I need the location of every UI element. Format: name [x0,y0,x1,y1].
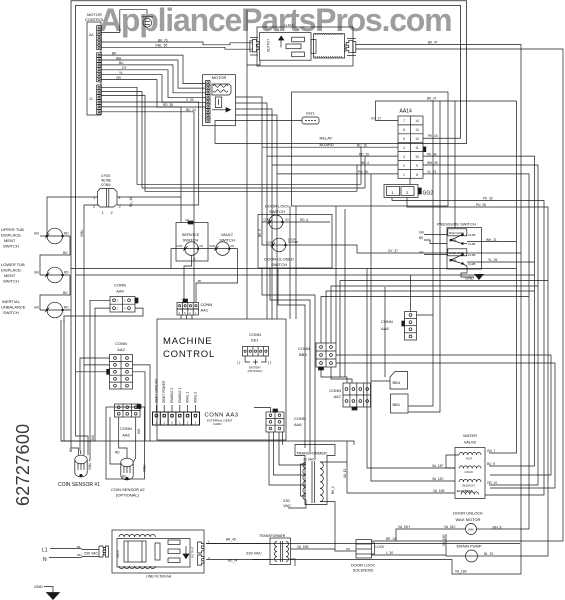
svg-text:BK: BK [198,280,202,283]
svg-text:BOARD: BOARD [320,142,334,147]
filter output plug [198,542,204,553]
svg-text:AA5: AA5 [122,433,130,438]
svg-text:GND: GND [465,276,474,281]
water valve box [455,448,485,499]
svg-text:ENABLE 2: ENABLE 2 [170,388,174,403]
output board inner module [260,33,312,61]
motor output wires down to machine control [236,97,263,222]
hatched relay block [314,34,345,58]
door bundle corner w3 [278,268,305,448]
svg-text:WH: WH [116,56,122,60]
contact base [451,255,463,261]
verticals below relay board [289,206,291,319]
svg-text:BK_1: BK_1 [331,486,335,494]
door tiny labels [264,219,299,245]
svg-text:INERTIAL: INERTIAL [2,299,21,304]
svg-text:WH: WH [91,434,95,440]
door switches enclosure [258,215,332,269]
wire GG1 to left [215,121,302,144]
frame outer [71,1,467,268]
wire inertial to coin sensor 1 [71,269,79,456]
svg-text:230 VAC: 230 VAC [246,551,262,556]
line filter box [112,530,204,573]
svg-text:5: 5 [403,137,405,141]
svg-text:19-M8: 19-M8 [468,242,476,246]
svg-text:INPUT: INPUT [116,549,120,558]
GG2 top stub [409,178,411,184]
svg-text:DISPLACE-: DISPLACE- [1,233,23,238]
svg-text:BB1: BB1 [393,402,401,407]
door lock solenoid [350,540,446,559]
T2 leads [206,543,270,545]
door bundle corner w2 [270,268,310,452]
svg-text:SWITCH: SWITCH [3,310,19,315]
svg-text:RD_6: RD_6 [300,218,308,222]
svg-text:ENABLE 1: ENABLE 1 [178,388,182,403]
svg-text:BB4: BB4 [393,380,401,385]
svg-text:LOWER TUB: LOWER TUB [1,262,25,267]
conn AA6 [266,412,284,432]
svg-text:BK_47: BK_47 [428,41,438,45]
wire main plug right to bundle [356,45,521,575]
svg-text:( ): ( ) [237,361,240,365]
filter top coil [119,534,155,537]
svg-text:TRANSFORMER: TRANSFORMER [296,451,327,456]
svg-text:CONN: CONN [120,426,132,431]
svg-text:AA4: AA4 [116,289,124,294]
svg-text:4 POS: 4 POS [101,174,110,178]
filter bottom coil [119,566,155,569]
wire staircase 3 [101,65,205,93]
svg-text:BR_14: BR_14 [386,537,396,541]
svg-text:DEBIT GROUND: DEBIT GROUND [154,378,158,403]
svg-text:DRAIN PUMP: DRAIN PUMP [456,544,481,549]
filter core block [124,541,146,562]
svg-text:CONN: CONN [115,341,127,346]
output board U2 [257,27,353,66]
svg-text:19-M8: 19-M8 [468,262,476,266]
svg-text:GN: GN [419,231,424,235]
svg-text:24-M8: 24-M8 [468,233,476,237]
4 pos inline connector J1 [98,189,118,208]
spur to output board [247,60,260,65]
svg-text:VAULT: VAULT [221,232,234,237]
svg-text:WATER: WATER [463,433,477,438]
svg-text:COIN SENSOR #2: COIN SENSOR #2 [111,487,145,492]
svg-text:RD: RD [64,232,69,236]
svg-text:9: 9 [416,164,418,168]
wire vault right down to AA1 [196,249,238,302]
vault switch S5 [216,242,230,256]
battery bracket [245,356,250,362]
base level box [448,249,467,256]
svg-text:CONN: CONN [294,416,306,421]
svg-text:DEBIT POWER: DEBIT POWER [162,380,166,403]
main level box [448,229,467,236]
svg-text:BB3: BB3 [299,352,307,357]
svg-text:UNBALANCE: UNBALANCE [1,305,26,310]
svg-text:COLD: COLD [465,470,474,474]
hot coil [459,452,481,455]
svg-text:CARD: CARD [213,422,222,426]
AA4 wires left [89,300,110,461]
motor M1 connector pins [206,81,210,123]
svg-text:CONTROL: CONTROL [85,17,105,22]
svg-text:NO: NO [231,245,235,248]
wire staircase 5 [101,75,205,103]
AA6 top wire [254,408,271,413]
svg-text:MACHINE: MACHINE [163,336,212,347]
svg-text:VAC: VAC [283,503,291,508]
wires right of 4pos [117,196,181,198]
svg-text:(OPTIONAL): (OPTIONAL) [116,493,140,498]
svg-text:CONTROL: CONTROL [163,349,215,360]
svg-text:RD_38: RD_38 [163,103,173,107]
svg-text:COM: COM [264,219,270,222]
svg-text:SWITCH: SWITCH [271,262,287,267]
wire RD_38 [101,107,181,222]
svg-text:13: 13 [415,128,419,132]
svg-text:VA_15C: VA_15C [444,525,456,529]
svg-text:DISPLACE-: DISPLACE- [1,268,23,273]
relay vertical continues [246,137,248,320]
conn AA3 strip [153,412,200,425]
svg-text:SERVICE: SERVICE [182,232,200,237]
upper tub switch S1 [47,228,63,244]
wire service com left [171,249,176,269]
wire BK_70 to output board [101,42,252,45]
svg-text:PK_33: PK_33 [483,197,493,201]
svg-text:BU_16: BU_16 [357,143,367,147]
filter caps [155,543,160,560]
svg-text:MAIN LEVEL: MAIN LEVEL [449,231,465,235]
filter inner box [117,539,190,568]
svg-text:RD: RD [64,306,69,310]
svg-text:V/BU: V/BU [88,462,92,470]
svg-text:( ): ( ) [268,361,271,365]
svg-text:GN: GN [34,232,39,236]
svg-text:YL: YL [119,71,123,75]
component rect 3 [292,52,305,57]
svg-text:YL_26: YL_26 [488,258,497,262]
service vault tiny labels [177,219,235,283]
thermal fuse F1 [142,16,154,18]
svg-text:OR: OR [116,76,121,80]
inertial unbalance switch S3 [47,302,63,318]
motor winding [212,84,231,95]
wax motor right lead [477,528,491,530]
svg-text:MOTOR: MOTOR [212,75,227,80]
svg-text:WH_21: WH_21 [486,238,497,242]
filter outputs [206,543,520,545]
svg-text:4a BYPASS: 4a BYPASS [457,489,473,493]
right wires [467,241,517,243]
svg-text:1: 1 [403,173,405,177]
service switch box [176,223,208,262]
valve left labels [432,464,444,493]
svg-text:CONN: CONN [249,332,261,337]
svg-text:(OPTIONAL): (OPTIONAL) [248,369,263,373]
CS2 wires [119,417,127,458]
wax motor left wire [396,529,466,541]
wire loop to thermal fuse [101,10,147,33]
svg-text:7: 7 [403,119,405,123]
AA4 wires right [64,308,143,322]
svg-text:AA1: AA1 [201,308,209,313]
svg-text:VA_13B: VA_13B [455,570,466,574]
svg-text:230 VAC: 230 VAC [84,552,99,556]
svg-text:MAIN: MAIN [343,43,347,52]
svg-text:BK_70: BK_70 [158,38,168,42]
AA14 left stubs [376,101,517,121]
svg-text:BLEACH: BLEACH [463,484,475,488]
wire to GND [461,264,474,278]
machine control box [157,319,286,440]
svg-text:VA_15B: VA_15B [297,545,308,549]
svg-text:VA_13F: VA_13F [432,464,443,468]
svg-text:BU: BU [63,291,68,295]
pin numbers AA1 [179,312,197,315]
svg-text:YL_23: YL_23 [427,170,436,174]
svg-text:N: N [43,557,47,563]
svg-text:PU_28: PU_28 [476,203,486,207]
AA8 stub [417,314,434,316]
svg-text:OR_10: OR_10 [487,481,497,485]
door bundle corner w1 [262,268,315,460]
motor thermal protector [215,97,221,108]
svg-text:L_30: L_30 [386,551,393,555]
svg-text:CONN: CONN [101,183,111,187]
svg-text:BR_45: BR_45 [226,538,236,542]
valve coil labels [457,457,475,494]
AA1 stubs into machine control [180,315,182,319]
svg-text:WH_25: WH_25 [427,161,438,165]
svg-text:4: 4 [403,146,405,150]
svg-text:BL_32: BL_32 [484,552,493,556]
BB4 [371,372,408,390]
pump left vertical [445,534,447,556]
input plug [99,546,105,557]
drain pump M3 [466,550,478,562]
svg-text:GY_37: GY_37 [388,249,398,253]
svg-text:L1 FA N: L1 FA N [284,23,294,27]
AA2 right wires [133,365,151,441]
valve right labels [487,449,497,485]
wire y107 to right bundle [489,101,517,453]
transformer enclosure [295,445,335,505]
svg-text:NO: NO [285,219,289,222]
svg-text:BU: BU [122,475,127,479]
transformer secondary bottom wire [320,502,350,551]
svg-text:GN: GN [185,219,189,222]
wire staircase 6 [101,80,205,107]
switch chain wires [47,197,98,236]
bus wire y275 [76,268,535,275]
wax motor M2 [466,524,477,535]
wire bb3 box edge vertical [335,206,337,343]
bus wire y268 [71,267,517,270]
wire vertical x345 [344,209,346,377]
svg-text:PRESSURE SWITCH: PRESSURE SWITCH [437,222,476,227]
AA3 wires up with labels [156,405,195,412]
relay board box [292,92,449,206]
wire bundle mc to water valve 2 [371,275,455,481]
svg-text:V_29: V_29 [186,98,194,102]
wire staircase 4 [101,70,205,98]
svg-text:8: 8 [416,173,418,177]
svg-text:WH_8: WH_8 [493,525,502,529]
svg-text:BU: BU [119,61,124,65]
svg-text:BU_9: BU_9 [487,462,495,466]
BB3 top wires [321,297,529,344]
arrow symbol [280,40,282,48]
wire bus C [101,96,357,192]
wire BU_24 [101,112,194,302]
svg-text:GG1: GG1 [306,111,315,116]
conn AA8 [405,312,417,341]
wire bus B [101,92,365,189]
door closed switch S7 [272,238,286,252]
svg-text:VA_13C: VA_13C [432,477,444,481]
conn EE1 [243,347,269,357]
AA14 pin mark [423,147,426,153]
svg-text:V/BL_56: V/BL_56 [155,44,167,48]
svg-text:GN_7: GN_7 [487,449,496,453]
wire 4pos pin2 down [84,205,98,455]
svg-text:BATTERY: BATTERY [249,366,261,370]
svg-text:CONN: CONN [329,388,341,393]
svg-text:WAX MOTOR: WAX MOTOR [456,517,481,522]
svg-text:OUTPUT: OUTPUT [191,546,195,558]
svg-text:NO: NO [200,245,204,248]
AA14 right wires to far bundle [423,156,535,466]
AA2 left wires to coin bundle [80,358,110,454]
svg-text:24-M8: 24-M8 [468,253,476,257]
svg-text:CONN: CONN [201,302,213,307]
svg-text:VA_15H: VA_15H [398,525,410,529]
svg-text:WH: WH [137,428,141,434]
service switch S4 [185,242,199,256]
vertical wire from frame to lower left [246,10,248,137]
svg-text:CONN: CONN [114,283,126,288]
svg-text:RD_35: RD_35 [359,152,369,156]
svg-text:SWITCH: SWITCH [3,279,19,284]
wire bundle mc to water valve 1 [367,269,455,469]
svg-text:TRANSFORMER: TRANSFORMER [259,534,286,538]
motor control pin group 3 [97,85,102,114]
filter internal ground [185,546,187,554]
svg-text:BK_5: BK_5 [258,229,262,237]
svg-text:VALVE: VALVE [464,440,477,445]
svg-text:PU_26: PU_26 [358,170,368,174]
svg-text:AA: AA [89,33,94,37]
svg-text:JJ: JJ [89,97,93,101]
AA14 pin numbers left [403,119,419,177]
cold coil [459,466,481,469]
bypass coil [461,492,479,495]
svg-text:21-M8: 21-M8 [449,239,457,243]
svg-text:WH: WH [77,553,82,557]
svg-text:BU_W: BU_W [228,559,237,563]
svg-text:62727600: 62727600 [13,424,33,507]
svg-text:AA6: AA6 [294,422,302,427]
motor control pin group 2 [97,53,102,82]
conn AA4 [110,297,135,313]
pump bottom loop [206,560,452,575]
svg-text:PK_18: PK_18 [428,134,438,138]
svg-text:6: 6 [403,128,405,132]
svg-text:LINE FILTER AA: LINE FILTER AA [146,575,172,579]
svg-text:BU_24: BU_24 [186,108,196,112]
component rect 1 [292,37,305,42]
svg-text:OUTPUT: OUTPUT [267,39,271,52]
svg-text:BK_27: BK_27 [427,97,437,101]
svg-text:UPPER TUB: UPPER TUB [1,227,24,232]
wire service bottom to AA1 [184,255,192,302]
switch wire labels [34,232,69,310]
svg-text:SOLENOID: SOLENOID [353,568,374,573]
svg-text:AVAIL 1: AVAIL 1 [186,392,190,403]
4pos pin numbers [93,195,122,215]
wire V_29 long vertical [101,102,198,205]
pressure switch tiny labels [449,231,476,266]
svg-text:RD: RD [115,451,120,455]
svg-text:V/BU: V/BU [80,229,84,237]
wire door closed long right [293,245,521,253]
wire bus A from mc pin [101,87,361,184]
svg-text:AA14: AA14 [400,109,412,115]
svg-text:COM: COM [177,245,183,248]
BB3 to AA7 wires [321,370,347,383]
svg-text:12: 12 [415,137,419,141]
conn AA1 [177,299,199,319]
svg-text:AVAIL 0: AVAIL 0 [193,392,197,403]
svg-text:DOOR UNLOCK: DOOR UNLOCK [453,511,483,516]
capacitor C1 [311,40,316,54]
BB3 right wires to far right [336,355,551,475]
svg-text:RD: RD [64,271,69,275]
svg-text:GG2: GG2 [423,191,434,197]
conn AA5 [115,404,141,417]
svg-text:VA_15: VA_15 [343,468,347,478]
AA14 stub labels [357,117,438,175]
svg-text:GN: GN [346,547,350,551]
svg-text:VA_13B: VA_13B [433,489,444,493]
conn AA2 [110,355,133,390]
conn BB3 [316,343,336,367]
svg-text:CONN: CONN [381,319,393,324]
svg-text:LOCK: LOCK [376,545,386,549]
svg-text:21-M8: 21-M8 [449,259,457,263]
wire door lock right RD_6 [290,221,330,223]
wire V/BL_56 to output board [101,47,252,49]
svg-text:10: 10 [415,155,419,159]
svg-text:AA7: AA7 [333,394,341,399]
wire to BB4 [384,287,386,377]
svg-text:MENT: MENT [4,273,16,278]
svg-text:GN: GN [34,306,39,310]
svg-text:RELAY: RELAY [320,136,333,141]
BB1 [391,394,409,413]
contact main [451,235,463,241]
svg-text:PK_34: PK_34 [427,152,437,156]
left stubs [424,234,447,236]
svg-text:AA2: AA2 [117,347,125,352]
AA6 to transformer wires [269,432,306,485]
svg-text:BK: BK [77,545,81,549]
svg-text:COM: COM [209,245,215,248]
GG1 [302,117,319,124]
